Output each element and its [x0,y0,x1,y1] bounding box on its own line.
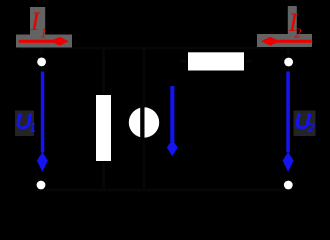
current arrow I2 (points left) [261,37,311,46]
svg-text:2: 2 [307,120,316,135]
wire bottom bus [42,189,289,192]
voltage arrow U1 (down) [37,72,48,173]
svg-text:1: 1 [40,27,47,42]
current label I2 [288,8,302,42]
terminal node top-right [282,55,295,68]
wire source branch upper [143,48,146,107]
terminal node bottom-right [282,178,295,191]
svg-text:2: 2 [295,27,302,42]
svg-text:1: 1 [29,120,36,135]
wire top bus [20,47,311,50]
label patch U2 [294,111,316,137]
terminal node top-left [35,55,48,68]
voltage label U1 [15,108,36,135]
wire left port bottom stub [40,185,43,190]
label patch I2 glyph [288,6,297,36]
label patch I2 arrow [257,34,312,47]
wire resistor R1 branch lower [102,161,105,190]
wire source branch lower [143,138,146,190]
voltage arrow U2 (down) [283,72,294,173]
voltage label U2 [294,108,316,135]
label patch I1 glyph [30,7,45,35]
controlled current arrow (middle, down) [167,86,178,156]
wire resistor R2 left lead [180,60,188,63]
current label I1 [30,7,47,42]
wire left port top stub [40,48,43,55]
wire resistor R2 right lead [244,60,252,63]
wire right port bottom stub [287,185,290,190]
wire resistor R1 branch upper [102,48,105,95]
label patch I1 arrow [16,35,72,48]
current source Q (circle with bar) [127,106,161,140]
terminal node bottom-left [34,178,47,191]
current arrow I1 (points right) [19,37,69,46]
resistor R1 (vertical, shunt) [94,93,112,162]
label patch U1 [15,111,34,137]
resistor R2 (horizontal, series) [186,51,245,72]
wire right port top stub [287,48,290,55]
